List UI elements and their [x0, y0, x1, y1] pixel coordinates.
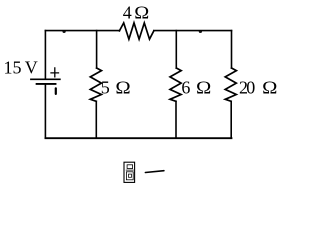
wire branch 5ohm top lead	[96, 31, 98, 68]
wire top-right segment	[154, 30, 232, 32]
svg-text:20Ω: 20Ω	[239, 78, 278, 98]
resistor R1 4ohm zigzag	[119, 23, 153, 39]
wire branch 6ohm top lead	[175, 31, 177, 68]
wire branch 5ohm bottom lead	[95, 101, 97, 138]
svg-text:5Ω: 5Ω	[101, 77, 131, 97]
svg-text:4Ω: 4Ω	[123, 3, 150, 23]
wire right bottom lead	[230, 101, 232, 138]
wire bottom	[45, 137, 231, 139]
svg-text:15V: 15V	[4, 58, 38, 78]
wire branch 6ohm bottom lead	[175, 101, 177, 138]
wire top-left segment	[45, 30, 119, 32]
wire left (source top lead)	[44, 31, 46, 79]
resistor R2 5ohm zigzag	[90, 68, 101, 101]
battery V1 bottom plate	[37, 83, 56, 85]
svg-text:6Ω: 6Ω	[181, 77, 211, 97]
node dot A on top wire	[62, 31, 65, 33]
resistor R4 20ohm zigzag	[225, 68, 236, 101]
battery plus sign	[51, 68, 59, 77]
wire right top lead	[231, 31, 233, 68]
resistor R3 6ohm zigzag	[170, 68, 181, 101]
wire left (source bottom lead)	[44, 84, 46, 138]
caption glyph tu (figure)	[124, 162, 135, 182]
battery V1 top plate	[31, 78, 60, 80]
node dot B on top wire	[199, 31, 202, 33]
caption glyph yi (one)	[145, 171, 164, 173]
battery minus tick	[55, 88, 57, 94]
